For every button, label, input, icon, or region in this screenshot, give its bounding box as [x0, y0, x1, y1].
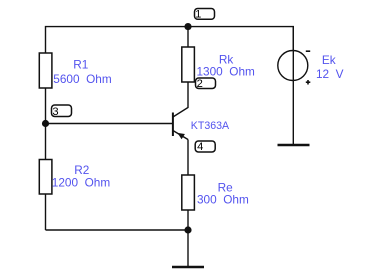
wire Re bottom	[187, 210, 189, 230]
wire top rail from R1 top to battery	[46, 27, 294, 53]
wire collector (Rk bottom to transistor)	[173, 82, 188, 117]
svg-text:1: 1	[195, 8, 201, 20]
wire base (node 3 to transistor base)	[46, 123, 173, 125]
svg-text:R1: R1	[73, 58, 88, 72]
svg-text:1300 Ohm: 1300 Ohm	[197, 65, 256, 79]
svg-text:12 V: 12 V	[316, 67, 344, 81]
junction dot at node 3	[42, 120, 49, 127]
svg-text:300 Ohm: 300 Ohm	[197, 192, 249, 206]
node 3	[52, 105, 72, 118]
resistor R2	[39, 160, 110, 195]
transistor Q1 KT363A	[173, 113, 230, 140]
resistor Rk	[182, 47, 255, 82]
resistor R1	[39, 53, 112, 88]
wire R2 bottom	[45, 194, 47, 230]
svg-text:5600 Ohm: 5600 Ohm	[53, 72, 112, 86]
node 1	[195, 8, 215, 20]
node 4	[195, 141, 215, 153]
wire battery lead (passes through circle)	[292, 27, 294, 145]
junction dot at node 1	[184, 23, 191, 30]
wire bottom rail	[46, 229, 189, 231]
ground (bottom)	[172, 230, 204, 267]
svg-text:4: 4	[197, 141, 203, 153]
svg-text:1200 Ohm: 1200 Ohm	[52, 175, 111, 189]
node 2	[196, 78, 216, 90]
svg-text:2: 2	[197, 78, 203, 90]
svg-text:3: 3	[52, 106, 58, 118]
wire emitter to Re	[187, 140, 189, 176]
junction dot bottom	[184, 226, 191, 233]
svg-text:KT363A: KT363A	[191, 120, 230, 132]
svg-text:Ek: Ek	[322, 53, 336, 67]
wire left mid (R1 bottom to R2 top)	[45, 88, 47, 160]
resistor Re	[182, 175, 249, 210]
ground (battery)	[278, 144, 310, 147]
battery Ek	[278, 51, 344, 85]
wire node1 to Rk	[187, 27, 189, 47]
